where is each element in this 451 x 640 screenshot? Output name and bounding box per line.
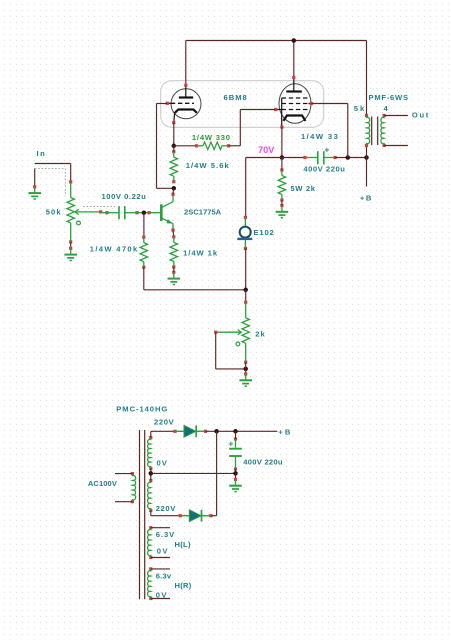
ground R5W2k xyxy=(276,204,289,218)
svg-text:220V: 220V xyxy=(154,418,175,427)
ground R1k xyxy=(168,271,181,285)
node B+ junction xyxy=(364,155,369,160)
svg-text:0V: 0V xyxy=(157,459,168,468)
svg-text:1/4W 33: 1/4W 33 xyxy=(301,132,339,141)
label 0V HL xyxy=(157,547,169,556)
wire pot to ground xyxy=(70,242,72,248)
wire B+ top rail xyxy=(186,40,367,42)
svg-text:+: + xyxy=(228,438,233,448)
label E102 xyxy=(254,228,275,237)
node screen junction xyxy=(346,155,351,160)
svg-text:5k: 5k xyxy=(354,104,366,113)
wire HV top to D1 xyxy=(151,430,175,432)
svg-text:0V: 0V xyxy=(157,547,169,556)
label 220V lower xyxy=(156,504,177,513)
wire cathode rail left xyxy=(246,157,305,159)
svg-text:1/4W 1k: 1/4W 1k xyxy=(183,249,218,258)
svg-text:H(R): H(R) xyxy=(175,581,192,590)
node 0V center tap xyxy=(149,471,154,476)
label Out xyxy=(412,111,430,120)
wire HV top corner xyxy=(150,431,152,437)
svg-text:2k: 2k xyxy=(255,330,265,339)
svg-text:1/4W 5.6k: 1/4W 5.6k xyxy=(186,161,230,170)
transformer T2 primary AC100V xyxy=(131,472,136,503)
label 0V center tap xyxy=(157,459,168,468)
wire to +B stub xyxy=(366,158,368,187)
label 1/4W 470k xyxy=(90,245,139,254)
wire +B to C3 xyxy=(235,431,237,439)
wire T1 primary bottom xyxy=(366,146,368,158)
label 6.3V HL xyxy=(156,530,176,539)
node Q1 collector xyxy=(172,186,177,191)
transistor Q1 2SC1775A xyxy=(148,193,175,232)
wire pot pin to node xyxy=(245,362,247,369)
transformer T2 heater winding H(L) xyxy=(148,526,153,559)
transformer T2 HV winding lower xyxy=(148,479,153,512)
svg-text:+B: +B xyxy=(278,427,292,436)
wire HV bottom corner xyxy=(150,511,152,516)
svg-text:6.3V: 6.3V xyxy=(156,530,176,539)
svg-text:1/4W 470k: 1/4W 470k xyxy=(90,245,139,254)
wire 0V HL stub xyxy=(151,557,170,559)
triode V1a (6BM8 triode section) xyxy=(166,84,201,124)
node VR2 bottom xyxy=(243,367,248,372)
resistor R 2k 5W xyxy=(278,168,285,201)
node D2 join xyxy=(214,429,219,434)
ground VR2 xyxy=(239,372,252,386)
svg-text:In: In xyxy=(37,149,47,158)
svg-text:6BM8: 6BM8 xyxy=(224,93,248,102)
label 100V 0.22u xyxy=(102,192,147,201)
transformer T1 primary winding xyxy=(365,114,370,147)
label 220V upper xyxy=(154,418,175,427)
diode D1 xyxy=(173,425,207,437)
label 70V xyxy=(258,145,275,155)
wire D2 output up xyxy=(216,431,218,515)
wire secondary return xyxy=(384,145,408,147)
label 2k xyxy=(255,330,265,339)
ground psu xyxy=(229,478,242,492)
wire E102 to 2k pot xyxy=(245,248,247,289)
svg-text:PMC-140HG: PMC-140HG xyxy=(116,405,168,414)
capacitor C3 220u 400V xyxy=(229,437,242,470)
svg-text:PMF-6WS: PMF-6WS xyxy=(369,93,409,102)
lamp E102 xyxy=(237,216,252,250)
wire Q1 emitter to R 1k xyxy=(172,230,175,237)
svg-text:50k: 50k xyxy=(46,208,62,217)
label 1/4W 330 xyxy=(192,133,231,142)
wire 0V line xyxy=(151,472,236,474)
wire HV center tap xyxy=(150,469,152,481)
resistor R 330 xyxy=(195,142,230,149)
label PMC-140HG xyxy=(116,405,168,414)
transformer T2 core xyxy=(140,430,145,599)
wire shield to ground xyxy=(34,169,36,187)
wire D1 to +B xyxy=(206,430,278,432)
label 1/4W 5.6k xyxy=(186,161,230,170)
wire to V1a plate xyxy=(185,41,187,86)
label H(R) xyxy=(175,581,192,590)
svg-text:+B: +B xyxy=(360,194,373,203)
wire HV bottom to D2 xyxy=(151,515,181,517)
wire C1 to Q1 base xyxy=(137,212,149,214)
wire to collector node xyxy=(157,187,174,189)
node C3 bottom 0V xyxy=(233,471,238,476)
transformer T2 heater winding H(R) xyxy=(148,567,153,600)
wire screen down xyxy=(347,104,349,158)
wire VR2 wiper down xyxy=(215,332,217,369)
label 1/4W 1k xyxy=(183,249,218,258)
svg-text:H(L): H(L) xyxy=(175,540,191,549)
svg-text:70V: 70V xyxy=(258,145,275,155)
wire to V1b g1 pin xyxy=(240,109,275,111)
wire rail to lamp E102 xyxy=(245,158,247,218)
pot VR1 marker o xyxy=(77,221,81,225)
capacitor C1 0.22u xyxy=(105,206,138,219)
wire input signal xyxy=(35,163,71,165)
wire R470k to 2k pot node xyxy=(144,289,246,291)
node junction top rail xyxy=(292,38,297,43)
svg-text:+: + xyxy=(324,145,329,155)
wire 0V to ground xyxy=(235,473,237,479)
wire C3 to 0V xyxy=(235,469,237,473)
pentode V1b (6BM8 pentode section) xyxy=(274,76,313,129)
node 2k pot top xyxy=(243,288,248,293)
wire grid to collector xyxy=(156,104,158,189)
svg-text:400V 220u: 400V 220u xyxy=(303,164,345,173)
svg-text:Out: Out xyxy=(412,111,430,120)
node V1a cathode xyxy=(172,144,177,149)
label 4 xyxy=(384,104,389,113)
wire node to ground xyxy=(245,369,247,374)
potentiometer VR1 50k xyxy=(67,180,102,243)
label In xyxy=(37,149,47,158)
wire cathode node to R330 xyxy=(174,145,197,147)
label 1/4W33 xyxy=(301,132,339,141)
node cathode rail xyxy=(280,155,285,160)
resistor R 470k xyxy=(140,236,147,269)
wire R1k to ground xyxy=(173,267,175,272)
svg-text:AC100V: AC100V xyxy=(88,479,118,488)
node Q1 base junction xyxy=(142,210,147,215)
wire input to pot xyxy=(70,164,72,182)
wire 0V HR stub xyxy=(151,598,170,600)
svg-text:5W 2k: 5W 2k xyxy=(290,184,315,193)
wire V1a cathode down xyxy=(173,123,175,146)
wire 6.3V HR stub xyxy=(151,568,170,570)
label +B psu xyxy=(278,427,292,436)
wire D2 to riser xyxy=(211,515,217,517)
tube envelope 6BM8 outline xyxy=(161,81,324,128)
wire R470k down xyxy=(143,267,145,290)
wire R5W2k to ground xyxy=(281,200,283,206)
wire rail to R5W2k xyxy=(281,158,283,171)
wire V1b cathode down xyxy=(281,127,283,157)
wire AC input lower stub xyxy=(115,501,132,503)
wire 6.3V HL stub xyxy=(151,527,170,529)
label +B main xyxy=(360,194,373,203)
transformer T1 core xyxy=(372,117,378,146)
wire V1b screen xyxy=(311,103,348,105)
wire wiper to bottom node xyxy=(216,368,246,370)
wire node to pot pin xyxy=(245,290,247,302)
svg-text:220V: 220V xyxy=(156,504,177,513)
svg-text:400V 220u: 400V 220u xyxy=(243,457,283,466)
label 6.3v HR xyxy=(156,572,172,581)
svg-text:E102: E102 xyxy=(254,228,275,237)
label 400V 220u xyxy=(303,164,345,173)
potentiometer VR2 2k xyxy=(214,301,249,364)
label 400V 220u psu xyxy=(243,457,283,466)
label PMF-6WS xyxy=(369,93,409,102)
wire to V1b plate xyxy=(293,41,295,78)
wire V1a grid xyxy=(157,103,168,105)
label 50k xyxy=(46,208,62,217)
wire node to collector pin xyxy=(172,188,175,194)
wire node to R5.6k xyxy=(173,146,175,152)
node C3 top xyxy=(233,429,238,434)
wire to transformer T1 primary xyxy=(366,41,368,116)
label 0V HR xyxy=(156,591,168,600)
svg-text:2SC1775A: 2SC1775A xyxy=(184,207,222,216)
label 5k xyxy=(354,104,366,113)
label + of C3 xyxy=(228,438,233,448)
ground VR1 xyxy=(64,247,77,261)
label 6BM8 xyxy=(224,93,248,102)
label 2SC1775A xyxy=(184,207,222,216)
wire base to R 470k xyxy=(143,213,145,238)
capacitor C2 220u 400V xyxy=(303,151,336,164)
wire R330 right xyxy=(229,145,241,147)
transformer T1 secondary winding xyxy=(381,114,386,147)
ground input xyxy=(28,185,41,199)
label H(L) xyxy=(175,540,191,549)
pot VR2 marker o xyxy=(236,342,240,346)
svg-text:6.3v: 6.3v xyxy=(156,572,172,581)
wire C2 to B+ node xyxy=(335,157,367,159)
label 5W 2k xyxy=(290,184,315,193)
wire pot wiper to C1 xyxy=(101,212,107,214)
diode D2 xyxy=(179,510,213,522)
svg-text:100V 0.22u: 100V 0.22u xyxy=(102,192,147,201)
wire secondary to Out xyxy=(384,115,408,117)
resistor R 5.6k xyxy=(170,150,177,183)
shielded cable shield (dashed) xyxy=(35,169,115,207)
wire up to V1b grid xyxy=(239,110,241,146)
label AC100V xyxy=(88,479,118,488)
transformer T2 HV winding upper xyxy=(148,436,153,470)
svg-text:1/4W 330: 1/4W 330 xyxy=(192,133,231,142)
label + of C2 xyxy=(324,145,329,155)
wire AC input upper stub xyxy=(115,473,132,475)
resistor R 1k xyxy=(170,235,177,268)
